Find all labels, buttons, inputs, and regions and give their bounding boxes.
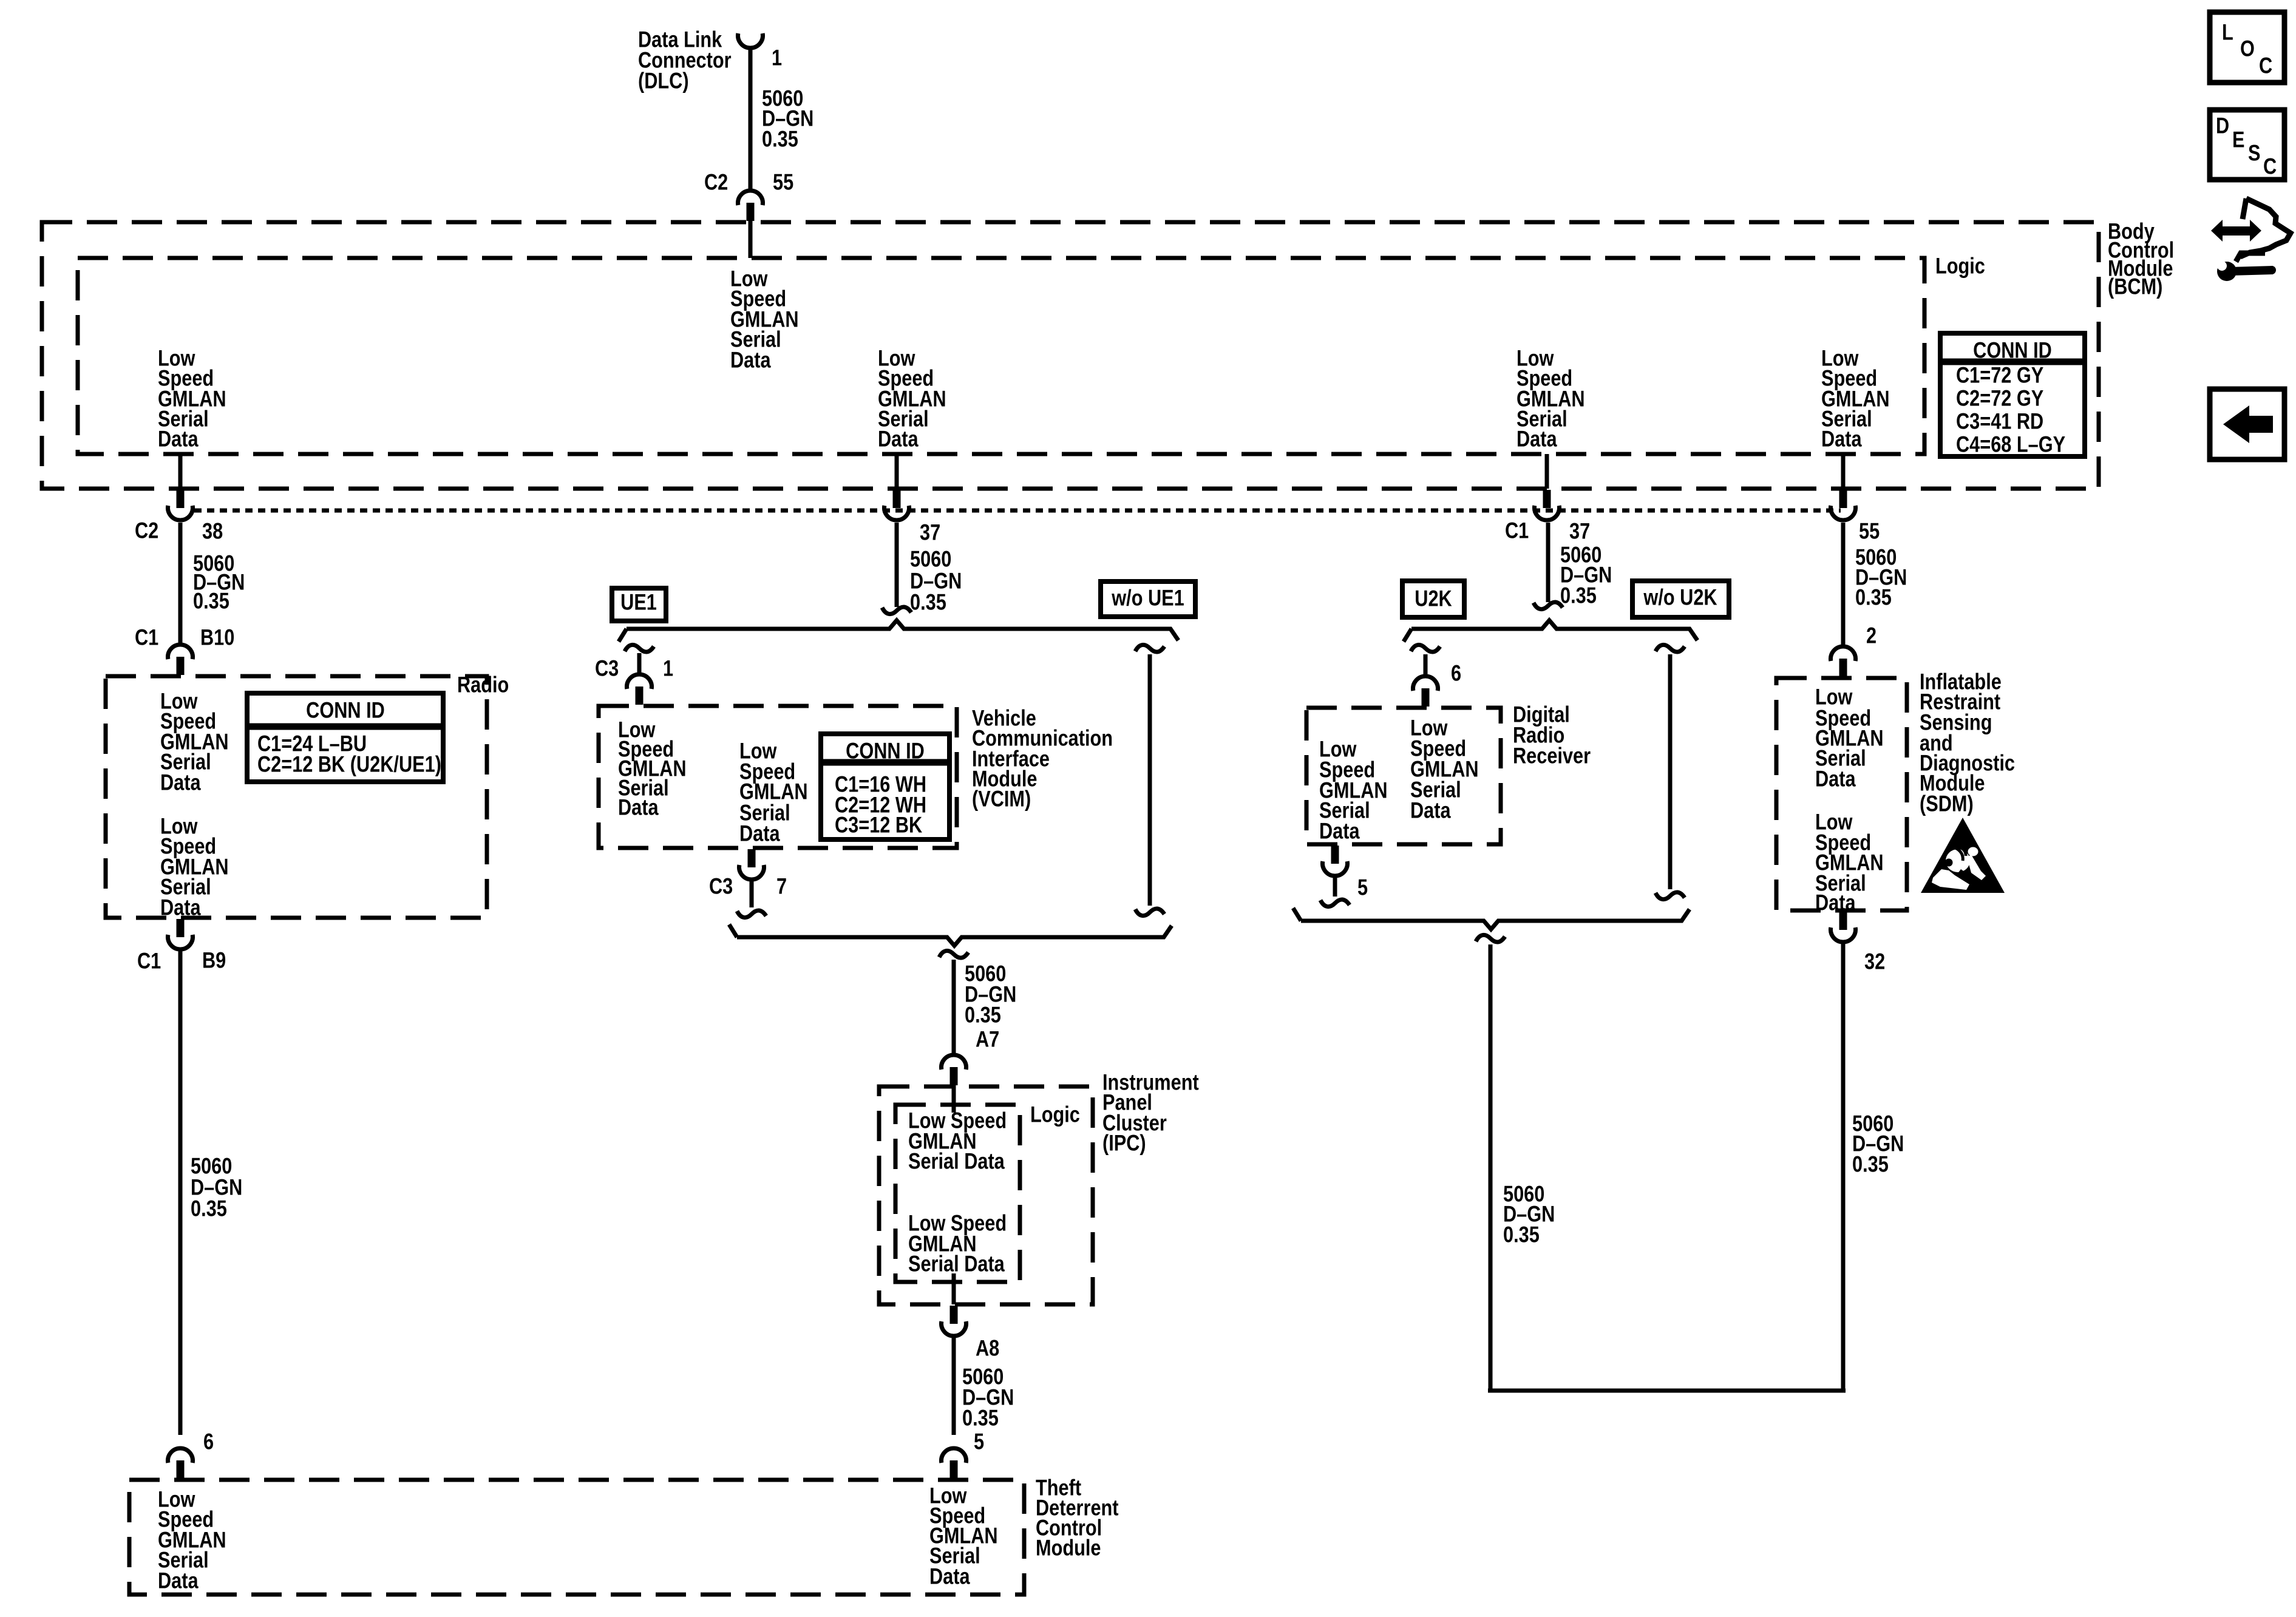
svg-text:37: 37 [920,520,940,545]
connector pin 55 exit from BCM [1839,490,1847,508]
module Theft Deterrent Control Module dashed box [129,1480,1024,1595]
wire BCM logic to pin 55 [1841,454,1846,489]
connector C3 pin 1 entry into VCIM [627,674,652,689]
svg-text:0.35: 0.35 [762,127,798,152]
svg-text:6: 6 [1451,661,1461,686]
svg-text:0.35: 0.35 [910,590,946,615]
split brace U2K / w-o U2K [1404,620,1697,642]
connector pin 37 exit from BCM [893,490,901,508]
svg-text:CONN ID: CONN ID [1973,338,2052,363]
connector pin 2 entry into SDM [1831,646,1856,661]
svg-text:0.35: 0.35 [965,1003,1001,1028]
wire w/o U2K branch [1656,645,1685,652]
svg-text:Data: Data [1517,427,1558,452]
option label U2K [1402,581,1464,617]
svg-text:37: 37 [1569,519,1590,544]
wire A7 inside IPC [952,1085,956,1113]
wire UE1 branch [625,645,654,652]
merge brace U2K chain [1293,908,1690,929]
svg-text:Data: Data [618,795,659,820]
wire DRR 5 to merge [1333,877,1337,897]
module VCIM dashed box [599,706,957,848]
wire DLC pin 1 to BCM C2 pin 55 [749,46,753,189]
svg-text:C3: C3 [595,656,619,681]
svg-text:C: C [2259,53,2272,78]
svg-text:S: S [2248,141,2260,166]
svg-text:55: 55 [773,170,793,195]
svg-text:Radio: Radio [457,673,509,697]
wire BCM 55 to SDM pin 2 [1841,523,1846,645]
svg-text:2: 2 [1866,623,1877,648]
connector C2 pin 38 exit from BCM [177,490,185,508]
svg-text:32: 32 [1864,949,1885,974]
wire DLC entry inside BCM [749,221,753,258]
svg-text:Serial Data: Serial Data [908,1252,1005,1276]
icon back arrow box [2210,389,2284,459]
svg-text:0.35: 0.35 [1503,1222,1540,1247]
svg-text:C3=12 BK: C3=12 BK [835,813,923,838]
svg-text:C1=72 GY: C1=72 GY [1956,363,2044,388]
svg-text:D: D [2216,114,2229,138]
svg-text:CONN ID: CONN ID [306,698,385,723]
svg-text:0.35: 0.35 [191,1196,227,1221]
icon double arrow with component outline and wrench [2211,198,2291,281]
svg-text:0.35: 0.35 [1852,1152,1889,1177]
svg-text:CONN ID: CONN ID [846,739,925,764]
connector pin A7 entry into IPC [942,1055,966,1070]
module Digital Radio Receiver dashed box [1306,708,1501,844]
wire IPC logic to A8 [952,1273,956,1304]
wire Radio B9 to Theft Deterrent pin 6 [178,951,183,1435]
icon DESC box [2210,110,2284,180]
svg-text:5: 5 [974,1429,984,1454]
svg-text:C2=72 GY: C2=72 GY [1956,386,2044,411]
svg-text:0.35: 0.35 [193,589,229,614]
wire BCM logic to C1 pin 37 [1545,454,1549,489]
svg-text:0.35: 0.35 [1855,585,1892,610]
svg-text:(VCIM): (VCIM) [972,787,1031,812]
BCM Logic inner dashed box [78,258,1924,454]
svg-text:7: 7 [776,874,787,899]
connector C3 pin 7 exit from VCIM [748,849,756,867]
svg-text:C1: C1 [137,949,161,974]
split brace UE1 / w-o UE1 [619,620,1178,642]
svg-text:Data: Data [929,1564,971,1589]
svg-text:A8: A8 [976,1336,999,1361]
wire w/o UE1 branch [1135,645,1164,652]
svg-text:Serial Data: Serial Data [908,1149,1005,1174]
option label UE1 [612,588,666,621]
svg-text:Data: Data [1821,427,1863,452]
option label w/o U2K [1632,581,1729,617]
wire bottom horizontal run [1488,1389,1846,1393]
svg-text:C1: C1 [135,625,158,650]
svg-text:6: 6 [203,1429,214,1454]
svg-text:Logic: Logic [1935,254,1985,279]
connector DLC cavity terminal [738,33,763,48]
svg-text:55: 55 [1859,519,1880,544]
svg-text:B10: B10 [200,625,234,650]
svg-text:Data: Data [1319,819,1360,844]
svg-text:Data: Data [1410,798,1452,823]
wire U2K branch [1411,645,1440,652]
connector pin 5 exit from Digital Radio Receiver [1331,846,1339,864]
option label w/o UE1 [1101,581,1195,617]
svg-text:Data: Data [160,895,202,920]
svg-text:Module: Module [1036,1536,1101,1561]
connector C1 pin B10 entry into Radio [168,645,193,659]
svg-text:w/o U2K: w/o U2K [1643,585,1717,610]
dotted in-harness link line [194,509,1841,513]
svg-text:O: O [2240,36,2255,61]
svg-text:Data: Data [158,427,199,452]
svg-text:Data: Data [160,770,202,795]
svg-text:E: E [2232,127,2244,152]
wire BCM 37 to UE1 split [895,523,899,607]
svg-text:(IPC): (IPC) [1102,1131,1146,1156]
wire end curl [882,607,911,614]
wire merge down long run [1476,935,1505,942]
wire BCM logic to pin 37 [895,454,899,489]
merge brace UE1 chain [729,924,1172,946]
wire BCM C1-37 to U2K split [1546,523,1550,602]
svg-text:1: 1 [663,656,673,681]
connector pin 6 entry into Digital Radio Receiver [1413,676,1438,691]
svg-text:B9: B9 [202,948,226,973]
connector C1 pin 37 exit from BCM [1543,490,1551,508]
svg-text:U2K: U2K [1415,586,1452,611]
svg-text:Data: Data [1815,890,1856,915]
Radio CONN ID table [247,693,443,782]
svg-text:0.35: 0.35 [962,1406,999,1431]
connector pin 5 entry into Theft Deterrent Control Module [942,1448,966,1463]
IPC Logic inner dashed box [895,1105,1020,1282]
svg-text:C2=12 BK (U2K/UE1): C2=12 BK (U2K/UE1) [257,752,441,777]
VCIM CONN ID table [821,734,949,839]
svg-text:Data: Data [878,427,919,452]
svg-text:(BCM): (BCM) [2108,274,2162,299]
module Radio dashed box [106,676,487,918]
icon LOC box [2210,12,2284,83]
module IPC dashed box [879,1086,1093,1304]
connector C2 pin 55 entry into BCM [738,191,763,205]
svg-text:38: 38 [202,519,223,544]
svg-text:(SDM): (SDM) [1920,792,1974,816]
svg-text:C3: C3 [709,874,733,899]
module SDM dashed box [1776,678,1907,910]
connector C1 pin B9 exit from Radio [177,919,185,937]
svg-text:Data: Data [730,348,772,373]
svg-text:C2: C2 [704,170,728,195]
svg-text:5: 5 [1357,875,1368,900]
svg-text:Data: Data [739,821,781,846]
connector pin A8 exit from IPC [950,1306,958,1324]
svg-text:(DLC): (DLC) [638,69,689,93]
connector pin 32 exit from SDM [1839,912,1847,930]
svg-text:A7: A7 [976,1027,999,1052]
svg-text:1: 1 [772,46,782,70]
module BCM outer dashed box [42,222,2099,489]
icon airbag warning triangle [1921,818,2005,893]
svg-text:Logic: Logic [1030,1102,1080,1127]
wire merge to IPC A7 [939,951,968,958]
svg-text:UE1: UE1 [620,590,657,615]
connector pin 6 entry into Theft Deterrent Control Module [168,1448,193,1463]
BCM CONN ID table [1940,333,2085,456]
wire A8 to Theft Deterrent pin 5 [952,1337,956,1435]
svg-text:C: C [2263,154,2277,179]
svg-text:C3=41 RD: C3=41 RD [1956,409,2043,434]
svg-text:Receiver: Receiver [1513,744,1591,768]
svg-text:C2: C2 [135,518,158,543]
svg-text:Data: Data [1815,767,1856,792]
wire C2-38 to Radio C1-B10 [178,523,183,643]
svg-text:C4=68 L–GY: C4=68 L–GY [1956,432,2065,457]
svg-text:0.35: 0.35 [1560,583,1597,608]
svg-text:Data: Data [158,1568,199,1593]
svg-text:C1: C1 [1505,518,1529,543]
wire up to SDM pin 32 [1841,943,1846,1392]
wire C3-7 to merge [750,881,754,907]
wire BCM logic to C2 pin 38 [178,454,183,489]
svg-text:L: L [2222,20,2233,45]
svg-text:w/o UE1: w/o UE1 [1111,586,1184,611]
